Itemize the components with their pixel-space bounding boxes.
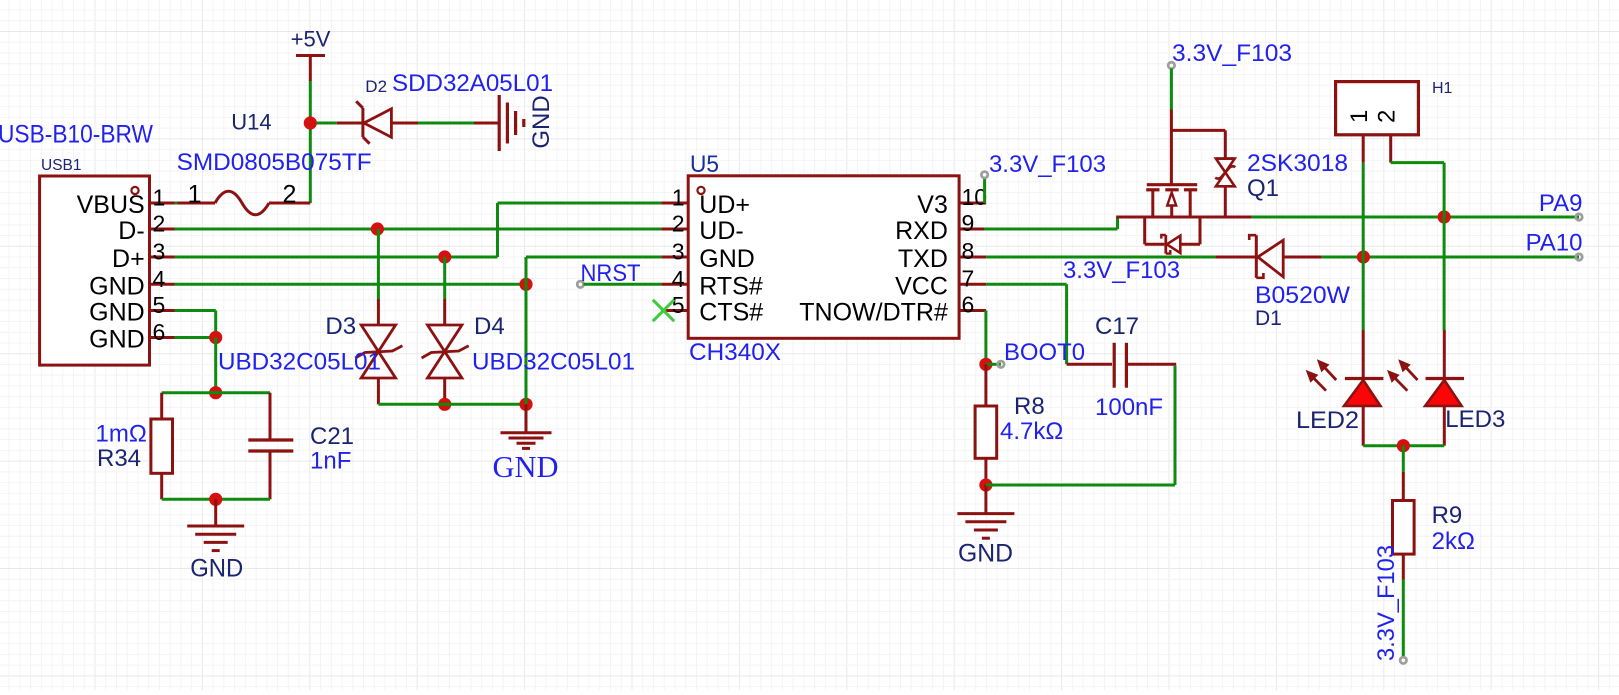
svg-text:PA10: PA10	[1526, 230, 1583, 257]
svg-text:4.7kΩ: 4.7kΩ	[1000, 418, 1063, 445]
svg-text:D+: D+	[112, 245, 145, 273]
svg-text:TNOW/DTR#: TNOW/DTR#	[799, 299, 948, 327]
svg-text:8: 8	[962, 238, 975, 264]
svg-text:GND: GND	[190, 555, 243, 583]
svg-text:2SK3018: 2SK3018	[1247, 150, 1348, 177]
svg-text:3: 3	[672, 239, 685, 265]
svg-text:GND: GND	[699, 245, 755, 273]
svg-text:R8: R8	[1014, 393, 1045, 420]
svg-text:D-: D-	[118, 217, 144, 245]
svg-text:VCC: VCC	[895, 272, 948, 300]
svg-text:GND: GND	[89, 272, 145, 300]
svg-text:3: 3	[153, 239, 166, 265]
svg-text:4: 4	[153, 266, 166, 292]
svg-text:NRST: NRST	[581, 260, 641, 287]
svg-text:SMD0805B075TF: SMD0805B075TF	[177, 149, 372, 176]
svg-text:GND: GND	[528, 95, 555, 148]
svg-text:BOOT0: BOOT0	[1004, 339, 1085, 366]
svg-text:3.3V_F103: 3.3V_F103	[1172, 40, 1292, 67]
svg-text:GND: GND	[89, 299, 145, 327]
svg-text:UBD32C05L01: UBD32C05L01	[472, 349, 635, 376]
svg-text:USB-B10-BRW: USB-B10-BRW	[0, 121, 153, 149]
svg-text:4: 4	[672, 266, 685, 292]
svg-text:2: 2	[283, 181, 297, 209]
svg-text:9: 9	[962, 210, 975, 236]
svg-text:USB1: USB1	[41, 157, 82, 174]
svg-text:6: 6	[962, 292, 975, 318]
svg-text:U14: U14	[231, 110, 271, 135]
svg-text:B0520W: B0520W	[1255, 282, 1350, 309]
svg-text:2: 2	[1373, 110, 1400, 123]
svg-text:D2: D2	[365, 77, 387, 96]
svg-text:CTS#: CTS#	[699, 299, 763, 327]
svg-text:CH340X: CH340X	[689, 339, 781, 366]
svg-text:SDD32A05L01: SDD32A05L01	[392, 70, 553, 97]
svg-text:2: 2	[672, 211, 685, 237]
svg-text:VBUS: VBUS	[77, 191, 145, 219]
svg-text:UBD32C05L01: UBD32C05L01	[218, 349, 381, 376]
svg-text:V3: V3	[917, 191, 948, 219]
svg-text:1: 1	[153, 185, 166, 211]
svg-text:GND: GND	[89, 326, 145, 354]
svg-text:GND: GND	[958, 540, 1013, 568]
svg-text:100nF: 100nF	[1095, 394, 1163, 421]
svg-text:1: 1	[672, 185, 685, 211]
svg-text:PA9: PA9	[1539, 190, 1583, 217]
svg-text:R9: R9	[1432, 502, 1463, 529]
svg-text:1: 1	[1346, 110, 1373, 123]
svg-text:D1: D1	[1255, 307, 1282, 330]
svg-text:1mΩ: 1mΩ	[96, 421, 147, 448]
svg-text:5: 5	[672, 292, 685, 318]
svg-text:3.3V_F103: 3.3V_F103	[989, 151, 1106, 178]
svg-text:2: 2	[153, 211, 166, 237]
svg-text:GND: GND	[493, 449, 559, 484]
svg-text:TXD: TXD	[898, 245, 948, 273]
svg-text:UD+: UD+	[699, 191, 750, 219]
svg-text:RXD: RXD	[895, 217, 948, 245]
svg-text:D3: D3	[325, 313, 356, 340]
svg-text:7: 7	[962, 265, 975, 291]
svg-text:H1: H1	[1432, 80, 1453, 97]
svg-text:C21: C21	[310, 423, 354, 450]
svg-text:6: 6	[153, 319, 166, 345]
svg-text:RTS#: RTS#	[699, 272, 763, 300]
svg-text:C17: C17	[1095, 313, 1139, 340]
svg-text:UD-: UD-	[699, 217, 743, 245]
svg-text:LED3: LED3	[1445, 406, 1505, 433]
svg-text:3.3V_F103: 3.3V_F103	[1063, 257, 1180, 284]
svg-text:3.3V_F103: 3.3V_F103	[1373, 545, 1400, 661]
svg-text:1nF: 1nF	[310, 448, 351, 475]
svg-text:+5V: +5V	[291, 27, 331, 52]
svg-text:1: 1	[188, 181, 202, 209]
svg-text:U5: U5	[690, 151, 719, 178]
svg-text:D4: D4	[474, 313, 505, 340]
svg-text:LED2: LED2	[1296, 407, 1359, 434]
svg-text:R34: R34	[97, 445, 141, 472]
svg-text:2kΩ: 2kΩ	[1432, 528, 1475, 555]
svg-text:5: 5	[153, 292, 166, 318]
svg-text:Q1: Q1	[1247, 175, 1279, 202]
